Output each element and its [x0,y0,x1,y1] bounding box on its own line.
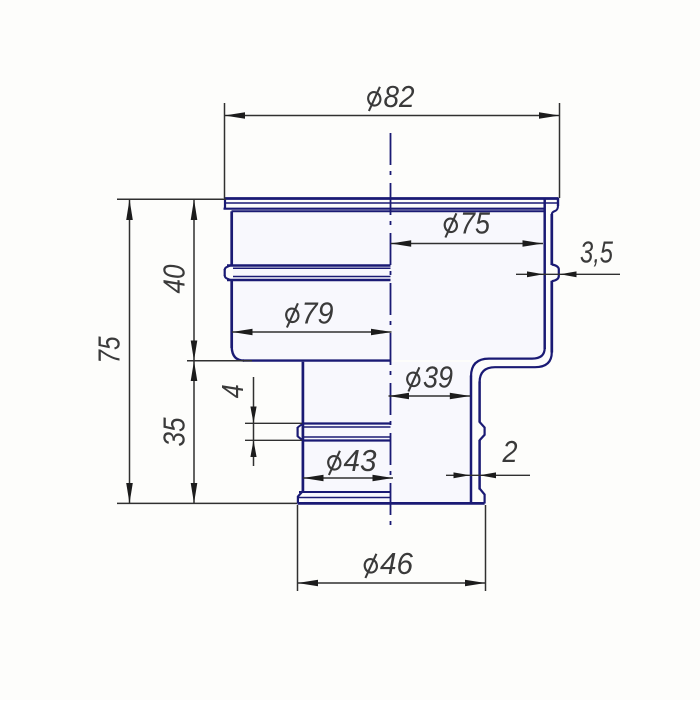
bottom-right flare [480,489,485,504]
lower bead bottom tangent line [304,436,391,438]
upper bead bottom tangent line [233,276,391,278]
dimension 35 arrow bottom [191,483,198,503]
dimension phi75 line [391,243,543,245]
extension line shoulder [187,360,252,362]
lower bead left flare bottom [298,436,303,440]
dimension phi43 arrow right [373,475,394,482]
label phi39 [406,367,421,391]
dimension phi79 line [232,331,392,333]
lower body outer wall lower [478,440,481,490]
lower bead section bump [480,422,485,440]
dimension 2 arrow right [480,472,497,478]
upper bead top tangent line [233,267,391,269]
svg-text:35: 35 [156,417,191,447]
dimension 40 arrow top [191,199,198,220]
lower bead bottom edge line [303,439,391,441]
dimension 4 arrow up [250,440,256,457]
dimension 4 extension top [245,422,302,424]
lower body inner wall [470,376,473,504]
extension line top left [117,198,226,200]
label phi82 [367,87,382,111]
label phi46 [363,554,378,578]
dimension phi39 line [389,395,471,397]
flange underside line [224,208,545,210]
dimension phi82 extension right [559,103,561,198]
inner transition S-curve [471,348,545,377]
center line [390,133,392,530]
lower bead left edge [297,427,299,437]
flange fillet line [226,202,557,204]
dimension phi46 line [298,582,486,584]
flange left edge [224,198,226,209]
flange right jog [552,206,558,215]
upper bead left flare bottom [225,275,232,280]
upper bead section bump [552,265,559,282]
svg-text:46: 46 [380,546,414,581]
dimension phi46 arrow left [298,580,319,587]
dimension phi79 arrow right [371,329,392,336]
dimension 2 line [446,474,530,476]
lower body outer wall [478,382,481,423]
upper bead bottom edge line [227,279,391,281]
dimension phi46 arrow right [465,580,486,587]
dimension 2 arrow left [454,472,471,478]
upper bead left flare [225,265,232,270]
label phi43 [327,451,342,475]
upper body bottom-left fillet [232,347,244,361]
upper bead top edge line [227,264,391,266]
dimension phi39 arrow right [450,393,471,400]
bottom-left flare edge [297,496,299,504]
dimension 4 extension bottom [245,439,302,441]
upper bead left edge [224,269,226,276]
dimension phi79 arrow left [232,329,253,336]
dimension 75 line [129,199,131,503]
dimension phi82 arrow left [225,112,246,119]
upper body left wall [230,211,233,265]
svg-text:4: 4 [215,384,250,398]
upper body right outer wall [550,214,553,265]
label phi79 [285,303,300,327]
dimension phi46 extension left [297,505,299,591]
shoulder bottom edge [243,359,391,361]
dimension 3,5 arrow left [527,271,544,277]
svg-text:75: 75 [460,206,491,241]
dimension 75 arrow bottom [126,483,133,503]
dimension phi82 line [225,115,560,117]
lower body left wall [302,362,305,492]
upper body right outer wall lower [550,281,553,353]
svg-text:79: 79 [302,296,334,331]
dimension phi43 line [303,477,393,479]
bottom-left flare [298,491,303,497]
label phi75 [443,213,458,237]
outer transition S-curve [480,352,552,383]
extension line bottom [117,502,297,504]
lower bead left flare top [298,424,303,428]
dimension 4 line [253,377,255,466]
dimension 75 arrow top [126,199,133,220]
dimension phi46 extension right [485,505,487,591]
svg-text:75: 75 [92,336,127,364]
dimension phi82 arrow right [539,112,560,119]
bottom flare top line [299,491,391,493]
svg-text:39: 39 [423,360,453,395]
dimension phi82 extension left [224,103,226,198]
flange top edge [225,197,558,200]
bottom flare tangent line [299,497,391,499]
lower bead top tangent line [304,426,391,428]
part bottom edge [298,502,485,505]
svg-text:40: 40 [156,265,191,294]
lower bead top edge line [303,422,391,424]
dimension phi75 arrow left [391,240,412,247]
upper body left wall lower [230,281,233,349]
flange underside tangent [232,210,545,212]
dimension 4 arrow down [250,407,256,424]
svg-text:82: 82 [384,79,415,114]
dimension phi75 arrow right [523,240,544,247]
flange right edge [557,198,559,207]
dimension 40-35 line [193,199,195,503]
dimension 40 arrow bottom [191,341,198,361]
dimension 3,5 line [516,273,620,275]
dimension phi39 arrow left [389,393,410,400]
dimension 3,5 arrow right [560,271,577,277]
svg-text:43: 43 [344,443,377,478]
svg-text:3,5: 3,5 [580,235,614,270]
dimension phi43 arrow left [303,475,324,482]
svg-text:2: 2 [502,434,518,469]
upper body inner wall [543,200,546,350]
dimension 35 arrow top [191,361,198,381]
